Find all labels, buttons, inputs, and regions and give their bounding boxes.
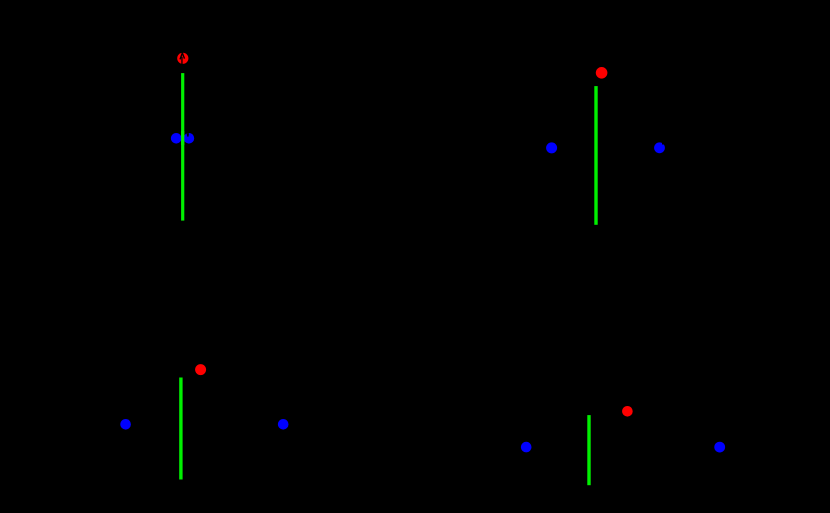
red marker — [622, 406, 633, 417]
blue marker right — [654, 142, 665, 153]
blue marker left — [521, 442, 532, 453]
green rod — [587, 415, 590, 485]
blue marker right — [714, 442, 725, 453]
red marker (impurity) with black arrow knockout — [177, 53, 188, 65]
blue marker left — [546, 142, 557, 153]
blue marker right — [278, 419, 289, 430]
green rod — [179, 378, 182, 480]
blue marker right of rod — [184, 133, 195, 144]
blue marker left — [120, 419, 131, 430]
black notch on right blue marker — [187, 133, 189, 136]
black notch on right blue marker — [662, 142, 664, 144]
red marker — [195, 364, 206, 375]
red marker — [596, 67, 608, 79]
green rod — [594, 86, 597, 225]
green rod (axis segment) — [181, 73, 184, 221]
green rod overlap (rod drawn above blue markers) — [181, 131, 184, 145]
blue marker left of rod — [171, 133, 182, 144]
